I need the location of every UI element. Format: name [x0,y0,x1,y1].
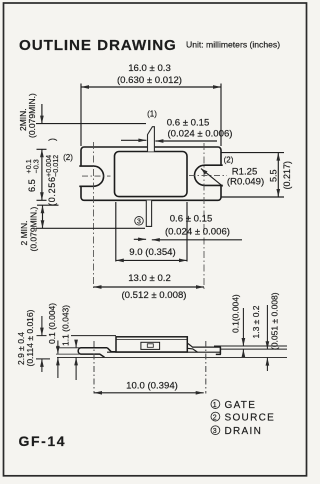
svg-text:(0.114 ± 0.016): (0.114 ± 0.016) [25,309,35,366]
text 6.5 tolerance [24,159,40,192]
arrow 0.1L top [56,346,60,354]
rotated texts side view [16,292,280,366]
rotated texts right: 5.5 [269,161,293,190]
side view centerline right [205,341,207,394]
svg-text:10.0 (0.394): 10.0 (0.394) [126,381,178,392]
svg-text:(0.630 ± 0.012): (0.630 ± 0.012) [117,75,182,86]
svg-text:0.1(0.004): 0.1(0.004) [231,294,241,333]
dim 5.5 extension lines [222,153,285,197]
svg-text:(0.024 ± 0.006): (0.024 ± 0.006) [167,129,232,140]
arrow 2MIN bottom up [41,205,45,213]
svg-text:(0.512 ± 0.008): (0.512 ± 0.008) [121,290,186,301]
arrowheads top view [40,85,280,289]
svg-text:(0.079MIN.): (0.079MIN.) [28,206,38,251]
dim 0.6 pin1 arrow lines [121,139,217,142]
svg-text:−0.3: −0.3 [32,159,41,173]
legend pin 1 gate [211,400,220,409]
cap lid seam [116,339,187,341]
arrow 0.6 pin1 left [138,138,146,142]
legend pin 3 drain [211,426,220,435]
centerline right slot horizontal [189,174,227,176]
arrow 1.3 top [266,341,270,349]
left lead extension lines [56,348,80,354]
rotated texts left of top view [18,93,60,252]
pin 1 lead (gate, top) [148,127,155,152]
dim 0.1 left arrow lines [57,341,59,379]
dim 16.0 line [81,86,221,88]
dim 13.0 line [94,286,205,288]
svg-text:2: 2 [213,414,218,421]
arrowheads side view [40,328,269,395]
dim texts top view [63,63,264,301]
2MIN bottom dimension line [36,205,145,228]
svg-text:1.1 (0.043): 1.1 (0.043) [61,305,71,346]
dim 10.0 line [94,392,204,394]
svg-text:(2): (2) [224,156,234,165]
right mounting slot [195,165,223,185]
centerline left slot vertical [93,142,95,290]
cap side view [116,337,187,352]
svg-text:9.0 (0.354): 9.0 (0.354) [129,247,175,258]
arrow 2.9 top [40,328,44,336]
svg-text:1: 1 [213,402,218,409]
dim 9.0 extension lines [116,202,187,262]
dim 5.5 line [277,153,279,197]
svg-text:0.6 ± 0.15: 0.6 ± 0.15 [170,214,213,225]
left mounting slot [79,166,103,186]
arrow 6.5 top [40,149,44,157]
arrow 2MIN bottom down [41,220,45,228]
arrow 16.0 right [213,85,221,89]
arrow 9.0 right [179,259,187,263]
flange top line side view [107,351,221,353]
cap boss inner mark [147,344,153,348]
svg-text:1.3 ± 0.2: 1.3 ± 0.2 [251,305,261,338]
arrow 1.1 bottom [74,357,78,365]
dim 9.0 line [116,259,187,261]
centerline right slot vertical [203,143,205,290]
cap boss [141,342,160,349]
pin 3 lead (drain, bottom) [146,200,151,226]
R1.25 leader [201,169,223,187]
svg-text:0.6 ± 0.15: 0.6 ± 0.15 [167,118,210,129]
svg-text:3: 3 [137,219,141,226]
dim 0.6 pin3 arrow lines [134,238,242,241]
svg-text:(R0.049): (R0.049) [227,177,264,188]
arrow 10.0 right [196,391,204,395]
svg-text:(0.079MIN.): (0.079MIN.) [27,93,37,138]
dim 1.1 arrow lines [75,340,77,380]
arrow 10.0 left [94,391,102,395]
svg-text:16.0 ± 0.3: 16.0 ± 0.3 [128,63,171,74]
svg-text:SOURCE: SOURCE [225,413,276,424]
arrow 0.6 pin3 left [138,237,146,241]
arrow 0.6 pin1 right [155,139,163,143]
arrow 1.1 top [74,340,78,348]
2.9 bottom tick [36,358,50,360]
arrow 2.9 bottom [40,359,44,367]
2MIN top dimension line [36,104,146,124]
svg-text:OUTLINE DRAWING: OUTLINE DRAWING [19,37,177,54]
side view centerline left [93,341,95,394]
svg-text:0.1 (0.004): 0.1 (0.004) [47,303,57,344]
right extension line B [221,348,287,350]
svg-text:3: 3 [213,428,218,435]
dim 1.3 arrow lines [266,305,268,371]
svg-text:(0.217): (0.217) [282,161,292,190]
svg-text:(0.024 ± 0.006): (0.024 ± 0.006) [165,227,230,238]
arrow 9.0 left [116,259,124,263]
pin 3 label circled 3 [135,217,144,226]
cap (ceramic body, top view) [115,152,188,197]
left lead side view [78,348,116,357]
svg-text:Unit: millimeters (inches): Unit: millimeters (inches) [186,39,280,49]
right lead end bracket [216,347,221,355]
svg-text:GF-14: GF-14 [19,433,67,449]
svg-text:(0.051 ± 0.008): (0.051 ± 0.008) [270,292,280,350]
text (0.256 tolerance) [44,138,60,206]
legend [211,400,275,437]
arrow 1.3 bottom [266,358,270,366]
arrow 13.0 left [94,285,102,289]
arrow 5.5 bottom [276,189,280,197]
svg-text:(2): (2) [63,153,73,162]
right extension line A (lead top) [214,345,287,347]
svg-text:6.5: 6.5 [27,179,37,192]
svg-text:(0.256: (0.256 [47,176,57,206]
legend pin 2 source [211,412,220,421]
centerline left slot horizontal [82,175,111,177]
dim 16.0 extension lines [81,84,221,147]
arrow 2MIN top [40,116,44,124]
arrow 0.1R top [242,338,246,346]
cap top extension lines [37,335,117,337]
arrow 0.1R bottom [242,349,246,357]
svg-text:): ) [47,138,57,141]
arrow 16.0 left [81,85,89,89]
arrow R1.25 leader [201,169,208,175]
seating plane line [57,356,287,358]
flange (top view, source tab) [81,147,221,200]
svg-text:DRAIN: DRAIN [225,426,263,437]
arrow 6.5 bottom [40,192,44,200]
dim 2.9 arrow lines [41,316,43,372]
dim 0.1 right arrow lines [242,308,244,357]
svg-text:GATE: GATE [225,400,257,411]
arrow 13.0 right [196,285,204,289]
svg-text:(1): (1) [147,110,157,119]
svg-text:−0.012: −0.012 [51,155,60,177]
arrow 0.6 pin3 right [152,238,160,242]
6.5 dimension line [37,149,47,200]
right lead side view [187,343,221,352]
svg-text:13.0 ± 0.2: 13.0 ± 0.2 [128,273,171,284]
arrow 0.1L bottom [56,357,60,365]
arrow 5.5 top [276,153,280,161]
svg-text:5.5: 5.5 [269,169,279,182]
